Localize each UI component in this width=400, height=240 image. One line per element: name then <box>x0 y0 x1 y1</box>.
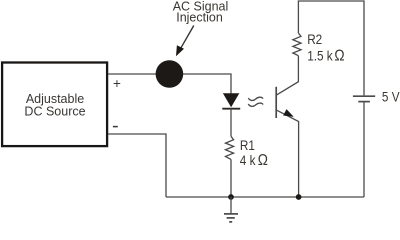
svg-text:Injection: Injection <box>176 10 223 24</box>
svg-text:R2: R2 <box>307 31 322 47</box>
LED D1 <box>223 93 239 107</box>
svg-text:4 k: 4 k <box>240 152 256 168</box>
top rail wire <box>298 1 364 95</box>
wire: LED cathode to R1 <box>230 109 232 137</box>
ground symbol <box>230 197 232 213</box>
- terminal label <box>113 126 118 128</box>
resistor R1 <box>226 136 234 159</box>
svg-text:Ω: Ω <box>334 48 344 65</box>
wire: R1 to bottom rail <box>230 159 232 197</box>
svg-text:DC Source: DC Source <box>24 105 85 119</box>
light coupling squiggles <box>248 97 263 100</box>
resistor R2 <box>293 33 301 56</box>
phototransistor Q1: emitter arrowhead <box>283 109 294 117</box>
wire: - terminal down to bottom rail <box>108 134 166 197</box>
bottom rail wire <box>166 196 364 198</box>
arrow to injection node <box>180 26 194 50</box>
AC injection node (black dot) <box>156 60 184 88</box>
phototransistor Q1: emitter lead <box>276 110 298 197</box>
junction dot at ground <box>228 194 234 200</box>
svg-text:Ω: Ω <box>258 152 268 169</box>
junction dot at emitter / bottom rail <box>296 194 302 200</box>
wire: + terminal to LED (through injection node) <box>108 74 231 94</box>
DC source box <box>2 63 107 147</box>
wire: battery negative to bottom rail <box>363 102 365 197</box>
svg-text:1.5 k: 1.5 k <box>307 47 333 63</box>
svg-text:5 V: 5 V <box>382 88 400 104</box>
svg-text:R1: R1 <box>240 137 255 153</box>
battery B1 plates <box>353 95 375 97</box>
svg-text:+: + <box>113 76 121 91</box>
phototransistor Q1: collector lead <box>276 56 298 95</box>
phototransistor Q1: base bar <box>275 87 277 118</box>
